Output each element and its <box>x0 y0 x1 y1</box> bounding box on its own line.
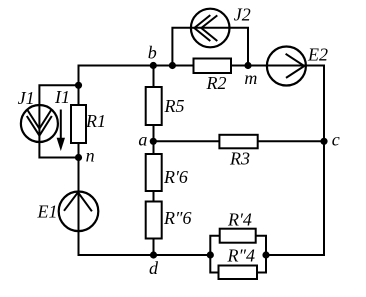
resistor R5 <box>146 87 162 125</box>
wire a to c <box>154 140 325 142</box>
wire J1 branch loop <box>39 85 78 157</box>
resistor R3 <box>219 135 257 149</box>
svg-text:R″6: R″6 <box>163 208 192 228</box>
node a junction dot <box>150 138 157 145</box>
svg-text:I1: I1 <box>54 87 70 107</box>
resistor R1 <box>71 105 86 143</box>
svg-text:m: m <box>244 68 257 88</box>
resistor R'6 <box>146 154 162 191</box>
J2 double chevron arrow (left) <box>194 15 210 41</box>
junction dot R4 group right <box>262 251 269 258</box>
node c junction dot <box>320 138 327 145</box>
svg-text:R″4: R″4 <box>227 246 256 266</box>
wire R4 parallel group loop <box>210 236 266 273</box>
svg-text:R2: R2 <box>206 73 227 93</box>
current arrow I1 <box>57 110 65 152</box>
wire J2 branch loop <box>172 28 248 66</box>
node d junction dot <box>150 251 157 258</box>
wire middle column b-a-d <box>153 66 155 256</box>
svg-text:R1: R1 <box>85 111 106 131</box>
svg-text:c: c <box>332 130 340 150</box>
svg-text:n: n <box>86 146 95 166</box>
J1 double chevron arrow (down) <box>27 116 52 136</box>
svg-text:E1: E1 <box>37 201 58 221</box>
svg-text:b: b <box>148 43 157 63</box>
resistor R2 <box>194 59 232 74</box>
svg-text:J2: J2 <box>234 5 251 25</box>
svg-text:J1: J1 <box>18 88 35 108</box>
node m junction dot <box>244 62 251 69</box>
E1 arrow barbs (up) <box>64 192 92 211</box>
EMF source E1 circle <box>59 192 99 232</box>
resistor R'4 <box>220 229 256 243</box>
svg-text:R′6: R′6 <box>163 167 188 187</box>
current source J2 circle <box>191 9 230 48</box>
node b junction dot <box>150 62 157 69</box>
junction dot J2 branch left <box>169 62 176 69</box>
svg-text:R5: R5 <box>164 96 185 116</box>
wire outer loop (top, left, right, bottom sides) <box>79 66 325 256</box>
svg-text:E2: E2 <box>307 44 328 64</box>
junction dot J1 branch top <box>75 82 82 89</box>
current source J1 circle <box>21 105 58 142</box>
E2 arrow barbs (right) <box>286 54 305 78</box>
svg-text:R′4: R′4 <box>227 210 252 230</box>
resistor R"4 <box>219 266 258 280</box>
node n junction dot <box>75 154 82 161</box>
resistor R"6 <box>146 202 162 239</box>
junction dot R4 group left <box>207 251 214 258</box>
svg-text:d: d <box>149 258 159 278</box>
svg-text:R3: R3 <box>229 149 250 169</box>
EMF source E2 circle <box>267 47 306 86</box>
svg-text:a: a <box>138 130 147 150</box>
